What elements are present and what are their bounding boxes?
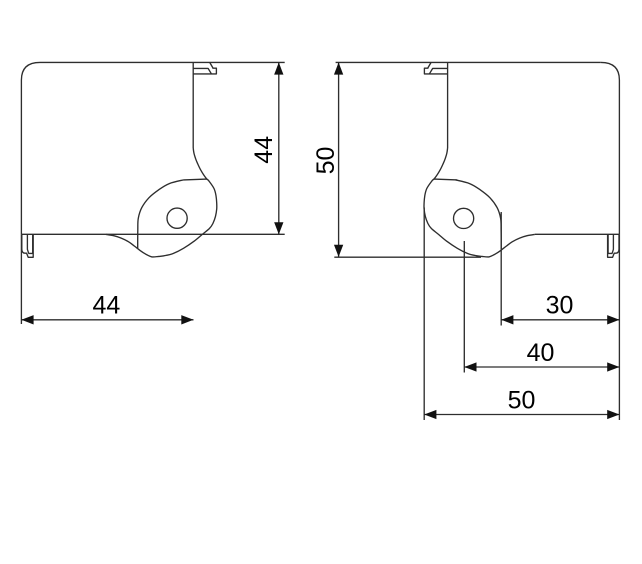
left bracket hole: [167, 208, 187, 228]
arrowheads: [21, 62, 619, 419]
dim 30 extension line: [500, 212, 502, 326]
right bracket bottom tab: [608, 234, 619, 257]
dim 50 bottom extension line: [423, 208, 425, 421]
left bracket notch: [193, 62, 216, 74]
dim 44 vertical bottom arrow: [274, 222, 283, 234]
dim 44 horizontal line: [21, 319, 193, 321]
svg-text:44: 44: [92, 292, 120, 320]
left edge extension line: [20, 234, 22, 324]
dim 40 line: [464, 366, 619, 368]
right bracket notch: [424, 62, 447, 74]
right edge extension line: [618, 234, 620, 420]
right bracket leaf top edge: [434, 178, 457, 181]
dim 40 left arrow: [464, 362, 476, 371]
dim 44 vertical top arrow: [274, 62, 283, 74]
dim 40 right arrow: [607, 362, 619, 371]
dim 30 left arrow: [501, 315, 513, 324]
dim 50 bottom right arrow: [607, 410, 619, 419]
right bracket outline: [336, 62, 620, 234]
dim 50 vertical line: [338, 62, 340, 257]
dim 40 extension line: [463, 241, 465, 373]
dim texts: [92, 136, 573, 415]
dim 50 vertical bottom extension: [334, 256, 481, 258]
left bracket leaf concave boundary: [138, 180, 184, 249]
dim 50 bottom left arrow: [424, 410, 436, 419]
right bracket cap edge and lobe: [447, 62, 449, 148]
dim 44 horizontal left arrow: [21, 315, 33, 324]
right bracket hole: [454, 208, 474, 228]
svg-text:30: 30: [546, 292, 574, 320]
dim 30 right arrow: [607, 315, 619, 324]
right bracket (mirror of left): [336, 62, 620, 420]
dim 44 vertical line: [278, 62, 280, 234]
dim 30 line: [501, 319, 619, 321]
dim 44 horizontal right arrow: [181, 315, 193, 324]
svg-text:40: 40: [527, 339, 555, 367]
right bracket leaf concave boundary: [455, 180, 501, 249]
dim 50 vertical top arrow: [334, 62, 343, 74]
dim 50 bottom line: [424, 414, 619, 416]
left bracket outline: [21, 62, 284, 234]
svg-text:50: 50: [508, 387, 536, 415]
left bracket leaf top edge: [184, 178, 207, 181]
left bracket bottom tab: [22, 234, 33, 257]
dim 50 vertical bottom arrow: [334, 245, 343, 257]
left bracket cap right edge and lobe: [106, 62, 217, 257]
svg-text:50: 50: [312, 147, 340, 175]
svg-text:44: 44: [250, 136, 278, 164]
